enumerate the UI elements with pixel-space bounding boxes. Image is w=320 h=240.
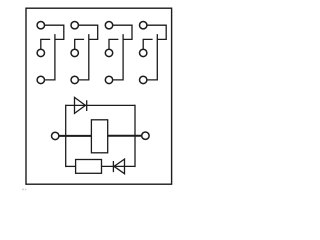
pole 4 wire from NO terminal xyxy=(147,25,166,39)
pole 2 fixed contact and wire xyxy=(79,34,89,80)
pole 2 wire from NO terminal xyxy=(79,25,98,39)
pole 1 movable contact arm xyxy=(41,39,50,49)
pole 1 common terminal xyxy=(37,49,44,56)
pole 3 fixed contact and wire xyxy=(113,34,123,80)
pole 1 bottom terminal xyxy=(37,76,44,83)
coil terminal A1 xyxy=(52,132,59,139)
wire right branch xyxy=(134,105,136,167)
pole 4 common terminal xyxy=(140,49,147,56)
coil terminal A2 xyxy=(142,132,149,139)
pole 2 movable contact arm xyxy=(75,39,84,49)
coil K1 xyxy=(91,120,107,153)
pole 3 bottom terminal xyxy=(105,76,112,83)
wire top branch xyxy=(66,104,135,106)
pole 3 movable contact arm xyxy=(109,39,118,49)
diode D2 xyxy=(113,159,124,174)
diode D1 xyxy=(75,97,87,113)
pole 1 fixed contact and wire xyxy=(45,34,55,80)
pole 3 NO terminal xyxy=(105,22,112,29)
pole 1 NO terminal xyxy=(37,22,44,29)
wire A1 to coil xyxy=(59,135,91,137)
pole 3 common terminal xyxy=(105,49,112,56)
pole 2 bottom terminal xyxy=(71,76,78,83)
wire bottom branch left xyxy=(66,165,76,167)
pole 1 wire from NO terminal xyxy=(45,25,64,39)
pole 4 bottom terminal xyxy=(140,76,147,83)
pole 2 common terminal xyxy=(71,49,78,56)
pole 4 movable contact arm xyxy=(143,39,152,49)
faint print artifact xyxy=(22,189,26,191)
pole 3 wire from NO terminal xyxy=(113,25,132,39)
wire left branch xyxy=(65,105,67,167)
relay case outline xyxy=(26,8,172,184)
pole 4 NO terminal xyxy=(140,22,147,29)
pole 4 fixed contact and wire xyxy=(148,34,158,80)
resistor R1 xyxy=(76,160,102,174)
pole 2 NO terminal xyxy=(71,22,78,29)
wire coil to A2 xyxy=(108,135,142,137)
wire bottom branch right xyxy=(102,165,136,167)
